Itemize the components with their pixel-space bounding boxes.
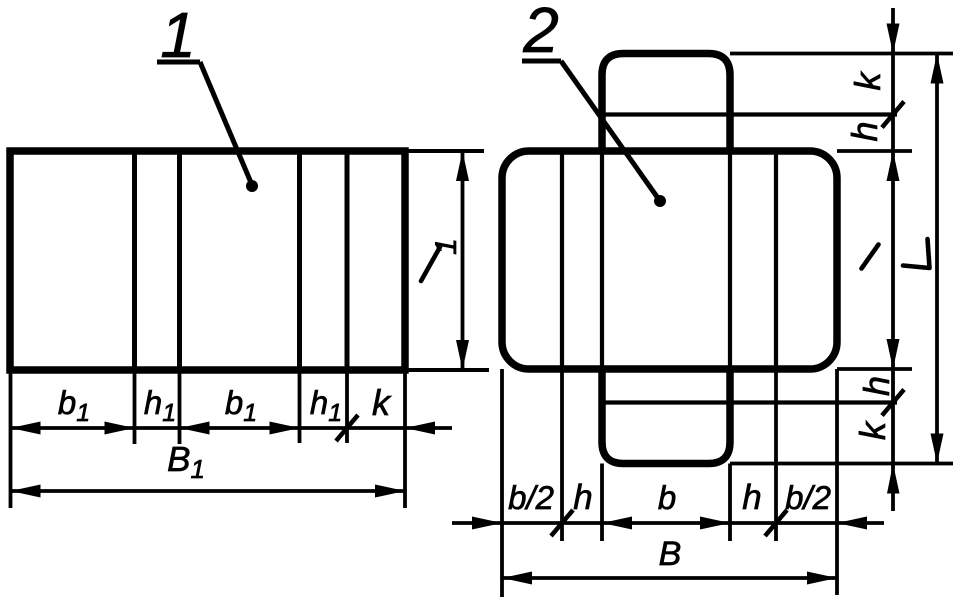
vertical chain dimension line k/h/l (right of part 2)	[891, 8, 895, 511]
leader 2 line	[561, 61, 660, 201]
part 1 blank outline (left rectangle)	[10, 151, 405, 370]
part 2 bottom tab outline	[602, 369, 730, 464]
fold line b1/h1 right	[297, 151, 302, 370]
svg-text:b/2: b/2	[508, 479, 554, 516]
arrowhead l1 bottom	[456, 340, 469, 370]
leader 2 underline	[522, 59, 561, 64]
extension line h1/k	[345, 370, 349, 443]
svg-text:2: 2	[522, 0, 559, 66]
leader 1 underline	[157, 60, 200, 65]
fold line h/k in bottom tab (extends right)	[602, 400, 897, 404]
dimension k (line + slash)	[347, 426, 405, 430]
extension of body top edge to the right	[837, 149, 912, 153]
extension line tab right edge	[728, 464, 732, 542]
part 2 top tab outline	[602, 54, 730, 152]
dimension b1 (second)	[180, 426, 300, 430]
fold line b/2 right in body	[774, 151, 778, 369]
svg-text:h: h	[742, 478, 761, 517]
extension of bottom edge for l1	[405, 368, 489, 372]
fold line b1/h1 left	[132, 151, 137, 370]
bottom row: line through h and b/2 right	[730, 521, 837, 525]
svg-text:B: B	[659, 535, 682, 573]
dimension B	[502, 576, 837, 580]
slash at k/h fold	[882, 102, 904, 128]
slash at h/k fold bottom	[882, 390, 904, 416]
bottom row: line through b/2 and h	[502, 521, 602, 525]
extension of top edge for l1	[405, 149, 484, 153]
fold line h1/b1 left	[177, 151, 182, 370]
leader 1 line	[200, 62, 252, 185]
slash at h / b/2 boundary right	[765, 510, 787, 536]
leader 1 dot	[246, 180, 258, 192]
arrow up to body top (l top)	[887, 151, 900, 181]
outside arrow right of k	[405, 426, 452, 430]
extension line h1/b1 left	[178, 370, 182, 444]
part 2 body outline (rounded cross bar)	[502, 151, 837, 369]
arrow down to tab top	[887, 24, 900, 54]
dimension line l1	[461, 151, 465, 370]
extension line h-b/2 right	[774, 369, 778, 541]
svg-text:h: h	[844, 121, 885, 141]
extension line tab left edge	[600, 464, 604, 542]
label L	[903, 239, 930, 268]
extension line b1/h1 left	[133, 370, 137, 444]
slash at b/2 / h boundary	[551, 510, 573, 536]
arrow down to body bottom (l bottom)	[887, 339, 900, 369]
svg-text:h: h	[573, 478, 592, 517]
svg-text:k: k	[372, 382, 392, 423]
svg-text:h: h	[856, 376, 897, 396]
extension of tab top edge to the right	[730, 52, 953, 56]
leader 2 dot	[654, 195, 666, 207]
dimension line L	[935, 54, 939, 464]
extension line right edge part 1	[403, 370, 407, 508]
svg-text:b/2: b/2	[785, 479, 831, 516]
extension of bottom tab bottom edge to the right	[730, 462, 953, 466]
extension line body right edge	[835, 369, 839, 595]
dimension B1	[11, 489, 406, 493]
extension line body left edge	[500, 369, 504, 597]
fold line b/2 left in body	[560, 151, 564, 369]
label l1	[421, 247, 440, 281]
fold line h left in body	[600, 151, 604, 369]
extension of body bottom edge to the right	[837, 367, 912, 371]
svg-text:k: k	[847, 71, 888, 91]
fold line h right in body	[728, 151, 732, 369]
dimension h1 (first, line only)	[135, 426, 180, 430]
dimension b	[602, 521, 730, 525]
fold line k/h in top tab (extends right as extension)	[602, 112, 897, 116]
bottom row: outside arrow left of b/2	[452, 521, 502, 525]
fold line h1/k right	[345, 151, 350, 370]
label l	[862, 245, 879, 269]
arrow up to tab bottom	[887, 464, 900, 494]
bottom row: outside arrow right of b/2	[837, 521, 884, 525]
extension line b/2-h left	[560, 369, 564, 541]
svg-text:k: k	[852, 420, 893, 440]
svg-text:b: b	[658, 479, 676, 516]
extension line left edge part 1	[9, 370, 13, 508]
arrowhead l1 top	[456, 151, 469, 181]
extension line b1/h1 right	[298, 370, 302, 443]
dimension h1 (second, line only)	[300, 426, 348, 430]
dimension b1 (first)	[11, 426, 135, 430]
svg-text:1: 1	[430, 238, 463, 255]
